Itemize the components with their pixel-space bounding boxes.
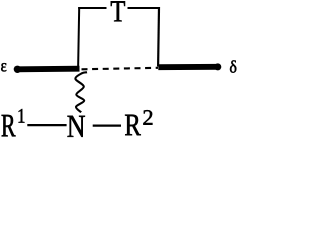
wire: right vertical of bracket: [157, 7, 160, 67]
label superscript 2: [143, 110, 152, 124]
wire: top bracket right horizontal segment: [128, 7, 161, 9]
label R1: [2, 115, 16, 136]
label epsilon: [1, 63, 6, 71]
wire: thick bond epsilon to junction: [16, 66, 80, 73]
label T: [111, 1, 125, 21]
node: left terminal dot: [14, 66, 21, 73]
wire: left vertical of bracket: [78, 7, 79, 69]
wire: bond R1 to N: [27, 124, 66, 126]
wire: top bracket left horizontal segment: [78, 7, 106, 9]
label N: [67, 116, 84, 137]
node: right terminal dot: [214, 63, 221, 70]
wire: wavy bond to N: [75, 72, 87, 112]
wire: dashed bond middle segment: [82, 68, 159, 70]
label R2: [125, 115, 141, 135]
wire: thick bond junction to delta: [158, 64, 219, 70]
wire: bond N to R2: [93, 124, 121, 126]
label delta: [230, 60, 236, 72]
label superscript 1: [19, 109, 25, 123]
